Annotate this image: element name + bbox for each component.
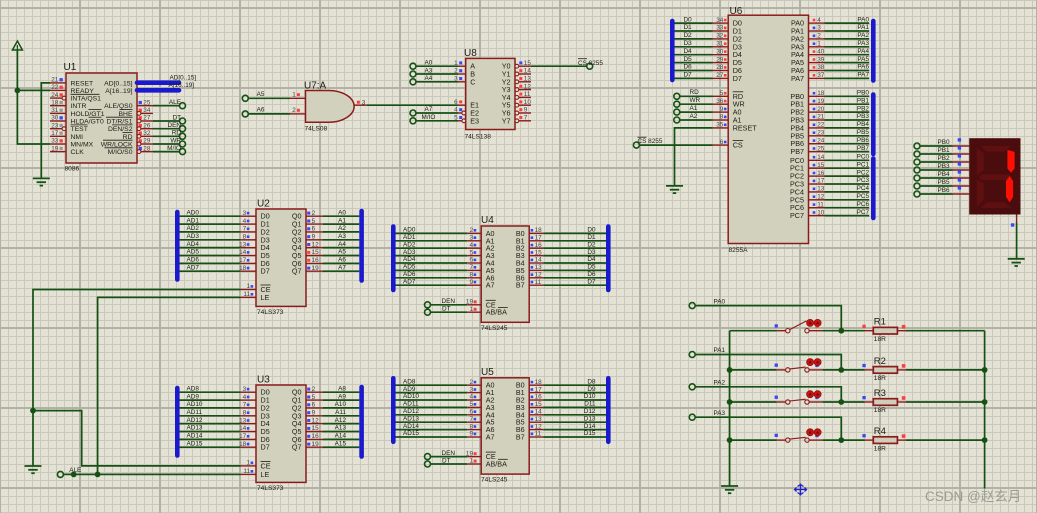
wire PB5 display (920, 178, 969, 186)
svg-text:12: 12 (817, 194, 825, 201)
wire U1 RESET to ground (41, 83, 50, 178)
svg-text:15: 15 (524, 60, 532, 67)
svg-text:D8: D8 (587, 378, 596, 385)
terminal ALE (169, 99, 186, 109)
wire A1 U6 (680, 111, 713, 113)
svg-text:R4: R4 (874, 426, 886, 437)
IC U6 8255A PPI (713, 6, 825, 254)
svg-text:WR: WR (170, 137, 181, 144)
svg-text:15: 15 (312, 425, 320, 432)
svg-text:D5: D5 (587, 264, 596, 271)
svg-text:ALE/QS0: ALE/QS0 (104, 103, 133, 110)
svg-text:A2: A2 (338, 225, 346, 232)
terminal PB4 to display (914, 171, 950, 181)
svg-text:PC0: PC0 (857, 154, 870, 161)
svg-text:A11: A11 (335, 409, 346, 416)
wire U1 DEN to terminal (153, 128, 180, 130)
wire PA0 to switch row (695, 306, 841, 331)
terminal PB5 to display (914, 179, 950, 189)
svg-text:2: 2 (469, 379, 473, 386)
svg-text:2: 2 (312, 386, 316, 393)
svg-text:D2: D2 (587, 241, 596, 248)
resistor R2 18R (841, 356, 984, 382)
svg-text:23: 23 (51, 122, 59, 129)
terminal A7 to U8 E2 (410, 106, 433, 116)
wire PB4 display (920, 170, 969, 178)
svg-text:D0: D0 (684, 16, 693, 23)
svg-text:INTR: INTR (71, 103, 87, 110)
terminal A4 to U8 (410, 75, 433, 85)
svg-text:D3: D3 (684, 40, 693, 47)
svg-text:10: 10 (817, 209, 825, 216)
svg-text:A14: A14 (335, 433, 347, 440)
svg-text:A10: A10 (335, 401, 347, 408)
wire U1 WR to terminal (153, 143, 180, 145)
bus PB right of U6 (871, 95, 876, 155)
svg-text:10: 10 (524, 99, 532, 106)
wire PB0 display (920, 138, 969, 146)
svg-text:Y7: Y7 (502, 116, 511, 125)
svg-text:8255A: 8255A (729, 247, 749, 254)
svg-text:29: 29 (143, 138, 151, 145)
terminal PB2 to display (914, 155, 950, 165)
svg-text:18R: 18R (874, 407, 886, 414)
svg-text:1: 1 (469, 458, 473, 465)
svg-text:E3: E3 (470, 116, 479, 125)
svg-text:12: 12 (535, 272, 543, 279)
junction R2 right (982, 367, 988, 373)
svg-text:12: 12 (524, 83, 532, 90)
svg-text:2: 2 (292, 107, 296, 114)
terminal A1 to U6 (674, 105, 698, 115)
terminal DEN (168, 122, 186, 132)
wire WR U6 (680, 103, 713, 105)
power symbol VCC (12, 41, 22, 50)
svg-text:D7: D7 (587, 278, 596, 285)
svg-text:6: 6 (454, 99, 458, 106)
AND gate U7:A 74LS08 (290, 81, 367, 133)
svg-text:D4: D4 (587, 256, 596, 263)
wire RD U6 (680, 95, 713, 97)
svg-text:PC6: PC6 (857, 201, 870, 208)
svg-text:D1: D1 (684, 24, 693, 31)
switch SW3 row 3 (730, 391, 842, 404)
svg-text:B7: B7 (516, 433, 525, 442)
svg-text:22: 22 (817, 122, 825, 129)
svg-text:A12: A12 (335, 417, 347, 424)
junction VCC node (15, 88, 21, 94)
bus left of U2 (175, 212, 180, 280)
svg-text:DT: DT (172, 114, 181, 121)
svg-text:74LS245: 74LS245 (481, 477, 508, 484)
svg-text:13: 13 (535, 416, 543, 423)
svg-text:A7: A7 (486, 281, 495, 290)
svg-text:A5: A5 (338, 249, 346, 256)
svg-text:3: 3 (817, 25, 821, 32)
svg-text:PA7: PA7 (791, 74, 804, 83)
svg-text:6: 6 (720, 139, 724, 146)
svg-text:A5: A5 (257, 91, 265, 98)
svg-text:D2: D2 (684, 32, 693, 39)
svg-text:19: 19 (817, 98, 825, 105)
wires U5 data (396, 378, 607, 437)
svg-text:11: 11 (243, 291, 250, 298)
svg-text:31: 31 (716, 41, 724, 48)
wire PB6 display (920, 186, 969, 194)
svg-text:15: 15 (535, 401, 543, 408)
ground below U1 (33, 178, 50, 185)
wire U8 Y0 to CS terminal (531, 65, 587, 67)
left vertical wire to ground (729, 331, 731, 486)
IC U4 74LS245 transceiver (466, 215, 543, 332)
svg-text:AD5: AD5 (187, 249, 200, 256)
svg-text:8: 8 (243, 410, 247, 417)
svg-text:33: 33 (716, 25, 724, 32)
wire PB3 display (920, 162, 969, 170)
svg-text:36: 36 (716, 98, 724, 105)
terminal RD (172, 130, 186, 140)
wire A4 (416, 81, 458, 83)
terminal PB3 to display (914, 163, 950, 173)
svg-text:2: 2 (469, 227, 473, 234)
svg-text:PA2: PA2 (857, 32, 869, 39)
svg-text:27: 27 (716, 72, 724, 79)
svg-text:AD2: AD2 (187, 225, 200, 232)
resistor R1 18R (841, 317, 984, 343)
terminal A2 to U6 (674, 113, 698, 123)
svg-text:PB1: PB1 (857, 97, 870, 104)
svg-text:AD7: AD7 (187, 264, 200, 271)
svg-text:5: 5 (312, 218, 316, 225)
svg-text:PC2: PC2 (857, 169, 870, 176)
terminal M/IO to U8 E3 (410, 114, 435, 124)
svg-text:18: 18 (51, 99, 59, 106)
terminal PA3 input (689, 410, 725, 420)
svg-text:AD7: AD7 (403, 278, 416, 285)
bus left of U6 (670, 21, 675, 80)
origin marker (795, 484, 807, 496)
svg-text:U3: U3 (257, 375, 270, 386)
IC U1 8086 microprocessor (50, 62, 153, 173)
svg-text:74LS373: 74LS373 (257, 309, 284, 316)
svg-text:Q7: Q7 (292, 443, 302, 452)
wire PB1 display (920, 146, 969, 154)
bus PC right of U6 (871, 159, 876, 219)
svg-text:CSDN @赵玄月: CSDN @赵玄月 (925, 488, 1021, 504)
svg-text:PB3: PB3 (857, 113, 870, 120)
svg-text:PA1: PA1 (714, 347, 726, 354)
svg-text:AD4: AD4 (187, 241, 200, 248)
svg-text:74LS138: 74LS138 (465, 133, 492, 140)
terminal ALE input (57, 467, 81, 477)
svg-text:PB2: PB2 (857, 105, 870, 112)
svg-text:4: 4 (243, 218, 247, 225)
svg-text:PA0: PA0 (714, 298, 726, 305)
bus right of U5 (606, 378, 611, 442)
svg-text:INTA/QS1: INTA/QS1 (71, 96, 102, 103)
svg-text:2: 2 (312, 210, 316, 217)
svg-text:18R: 18R (874, 336, 886, 343)
svg-text:PC4: PC4 (857, 185, 870, 192)
svg-text:PB0: PB0 (857, 90, 870, 97)
svg-text:MN/MX: MN/MX (71, 142, 94, 149)
terminal PA1 input (689, 347, 725, 357)
wire PA2 to switch row (695, 387, 841, 402)
terminal PB0 to display (914, 139, 950, 149)
bus right of U3 (359, 387, 364, 457)
svg-text:AD6: AD6 (403, 271, 416, 278)
svg-text:1: 1 (469, 306, 473, 313)
svg-text:21: 21 (817, 114, 825, 121)
svg-text:1: 1 (246, 283, 250, 290)
svg-text:7: 7 (469, 264, 473, 271)
svg-text:AD10: AD10 (187, 401, 203, 408)
wire ground branch to U3 CE (33, 411, 241, 466)
svg-text:11: 11 (535, 431, 542, 438)
junction row4 left (727, 437, 733, 443)
junction R4 right (982, 437, 988, 443)
svg-text:U7:A: U7:A (304, 81, 327, 92)
svg-text:30: 30 (51, 115, 59, 122)
svg-text:AD4: AD4 (403, 256, 416, 263)
svg-text:19: 19 (51, 145, 59, 152)
svg-text:1: 1 (246, 460, 250, 467)
svg-text:21: 21 (51, 77, 59, 84)
svg-text:4: 4 (469, 242, 473, 249)
terminal A0 to U8 (410, 60, 433, 70)
IC U8 74LS138 decoder (454, 48, 531, 140)
wire PA3 to switch row (695, 417, 841, 440)
svg-text:READY: READY (71, 88, 95, 95)
wire A7 (416, 112, 458, 114)
svg-text:AD0: AD0 (403, 227, 416, 234)
ground lower left (25, 466, 42, 473)
svg-text:A15: A15 (335, 440, 347, 447)
display common pin wire (1011, 215, 1017, 259)
svg-text:5: 5 (312, 394, 316, 401)
svg-text:LE: LE (261, 293, 270, 302)
svg-text:AD9: AD9 (187, 393, 200, 400)
svg-text:A4: A4 (338, 241, 346, 248)
svg-text:16: 16 (535, 242, 543, 249)
svg-text:2: 2 (817, 33, 821, 40)
svg-text:A7: A7 (425, 106, 433, 113)
svg-text:AB/BA: AB/BA (486, 308, 507, 317)
svg-text:8: 8 (243, 234, 247, 241)
svg-text:AD[0..15]: AD[0..15] (170, 74, 197, 81)
svg-text:28: 28 (143, 145, 151, 152)
wire U1 DT to terminal (153, 120, 180, 122)
svg-text:A7: A7 (338, 264, 346, 271)
svg-text:U6: U6 (730, 6, 743, 17)
wire ground to U2 CE (33, 290, 241, 467)
junction R3 right (982, 399, 988, 405)
svg-text:15: 15 (312, 249, 320, 256)
svg-text:16: 16 (312, 257, 320, 264)
junction row3 left (727, 399, 733, 405)
svg-text:AD3: AD3 (187, 233, 200, 240)
wire A5 to U7 pin1 (248, 97, 290, 99)
svg-text:3: 3 (243, 386, 247, 393)
svg-text:14: 14 (535, 257, 543, 264)
svg-text:D12: D12 (584, 408, 596, 415)
svg-text:A0: A0 (338, 209, 346, 216)
svg-text:27: 27 (143, 115, 151, 122)
svg-text:PB4: PB4 (857, 121, 870, 128)
svg-text:AD3: AD3 (403, 249, 416, 256)
svg-text:18: 18 (535, 379, 543, 386)
svg-text:6: 6 (469, 257, 473, 264)
svg-text:28: 28 (716, 64, 724, 71)
svg-text:PA7: PA7 (857, 72, 869, 79)
svg-text:D7: D7 (261, 267, 270, 276)
terminal PA0 input (689, 298, 725, 308)
svg-text:U1: U1 (64, 62, 77, 73)
svg-text:A3: A3 (338, 233, 346, 240)
svg-text:U2: U2 (257, 199, 270, 210)
terminal WR (170, 137, 185, 147)
wires U2 data (180, 209, 360, 271)
svg-text:M/IO: M/IO (422, 114, 436, 121)
svg-text:RD: RD (690, 89, 700, 96)
svg-text:8: 8 (469, 423, 473, 430)
svg-text:R1: R1 (874, 317, 886, 328)
svg-text:12: 12 (535, 423, 543, 430)
terminal RD to U6 (674, 89, 699, 99)
wire A6 to U7 pin2 (248, 113, 290, 115)
svg-text:AD9: AD9 (403, 386, 416, 393)
svg-text:PA5: PA5 (857, 56, 869, 63)
terminal M/IO (167, 145, 185, 155)
wire A3 (416, 73, 458, 75)
svg-text:TEST: TEST (71, 126, 88, 133)
wire ALE to U3 LE (63, 473, 240, 475)
terminal WR to U6 (674, 97, 701, 107)
svg-text:16: 16 (312, 433, 320, 440)
svg-text:16: 16 (535, 394, 543, 401)
terminal PB6 to display (914, 187, 950, 197)
wire U6 RESET to ground (675, 128, 713, 186)
svg-text:A1: A1 (690, 105, 698, 112)
svg-text:23: 23 (817, 130, 825, 137)
wire U1 ALE to terminal (153, 105, 180, 107)
svg-text:13: 13 (535, 264, 543, 271)
svg-text:25: 25 (143, 99, 151, 106)
svg-text:R2: R2 (874, 356, 886, 367)
svg-text:13: 13 (817, 186, 825, 193)
svg-text:4: 4 (817, 17, 821, 24)
wire A0 (416, 65, 458, 67)
svg-text:11: 11 (817, 201, 824, 208)
svg-text:AD8: AD8 (187, 385, 200, 392)
wire ALE up to U2 LE (98, 297, 241, 474)
svg-text:PB6: PB6 (857, 137, 870, 144)
svg-text:20: 20 (817, 106, 825, 113)
svg-text:PC5: PC5 (857, 193, 870, 200)
wire U7 output to U8 E1 (367, 104, 458, 106)
svg-text:9: 9 (720, 106, 724, 113)
bus right of U2 (359, 211, 364, 281)
terminal CS 8255 output (578, 59, 603, 69)
svg-text:RD: RD (123, 134, 133, 141)
svg-text:D15: D15 (584, 430, 596, 437)
svg-text:A8: A8 (338, 385, 346, 392)
svg-text:AD11: AD11 (187, 409, 203, 416)
junction row1 right (838, 328, 844, 334)
svg-text:R3: R3 (874, 388, 886, 399)
svg-text:CS 8255: CS 8255 (578, 60, 603, 67)
svg-text:AD2: AD2 (403, 241, 416, 248)
terminal DT (172, 114, 185, 124)
svg-text:32: 32 (716, 33, 724, 40)
svg-text:18R: 18R (874, 445, 886, 452)
svg-text:PA4: PA4 (857, 48, 869, 55)
svg-text:AD8: AD8 (403, 378, 416, 385)
svg-text:19: 19 (312, 441, 320, 448)
svg-text:35: 35 (716, 122, 724, 129)
switch SW4 row 4 (730, 429, 842, 443)
svg-text:ALE: ALE (169, 99, 181, 106)
svg-text:9: 9 (469, 431, 473, 438)
svg-text:3: 3 (469, 235, 473, 242)
svg-text:PC7: PC7 (857, 209, 870, 216)
wires U3 data (180, 385, 360, 447)
right vertical wire (984, 331, 986, 489)
terminals DEN DT for U4 (425, 298, 468, 315)
wire M/IO (416, 120, 458, 122)
svg-text:DEN: DEN (168, 122, 182, 129)
junction ALE 2 (95, 472, 101, 478)
svg-text:D3: D3 (587, 249, 596, 256)
svg-text:AD14: AD14 (403, 423, 419, 430)
svg-text:LE: LE (261, 470, 270, 479)
terminal A5 (242, 91, 265, 102)
svg-text:PC7: PC7 (790, 211, 804, 220)
svg-text:D0: D0 (587, 227, 596, 234)
svg-text:22: 22 (51, 84, 59, 91)
svg-text:30: 30 (716, 48, 724, 55)
bus PA right of U6 (871, 21, 876, 81)
svg-text:AD6: AD6 (187, 257, 200, 264)
svg-text:RD: RD (172, 130, 182, 137)
IC U3 74LS373 latch (239, 375, 323, 492)
svg-text:26: 26 (143, 122, 151, 129)
svg-text:1: 1 (292, 91, 296, 98)
terminals DEN DT for U5 (425, 450, 468, 467)
7-segment display (969, 138, 1020, 214)
terminal PB1 to display (914, 147, 950, 157)
svg-text:AD5: AD5 (403, 264, 416, 271)
svg-text:3: 3 (362, 100, 366, 107)
wire PB2 display (920, 154, 969, 162)
svg-text:D11: D11 (584, 401, 596, 408)
wire VCC to U1 READY and MN/MX (17, 50, 50, 144)
svg-text:PC1: PC1 (857, 161, 870, 168)
bus left of U3 (175, 388, 180, 456)
svg-text:AD1: AD1 (403, 234, 416, 241)
svg-text:9: 9 (312, 410, 316, 417)
svg-text:C: C (470, 77, 475, 86)
svg-text:18R: 18R (874, 375, 886, 382)
svg-text:6: 6 (312, 226, 316, 233)
svg-text:PA3: PA3 (857, 40, 869, 47)
svg-text:9: 9 (469, 279, 473, 286)
svg-text:AD[0..15]: AD[0..15] (104, 80, 132, 87)
svg-text:14: 14 (535, 409, 543, 416)
svg-text:40: 40 (817, 48, 825, 55)
svg-text:39: 39 (817, 56, 825, 63)
terminal A6 (242, 106, 265, 117)
